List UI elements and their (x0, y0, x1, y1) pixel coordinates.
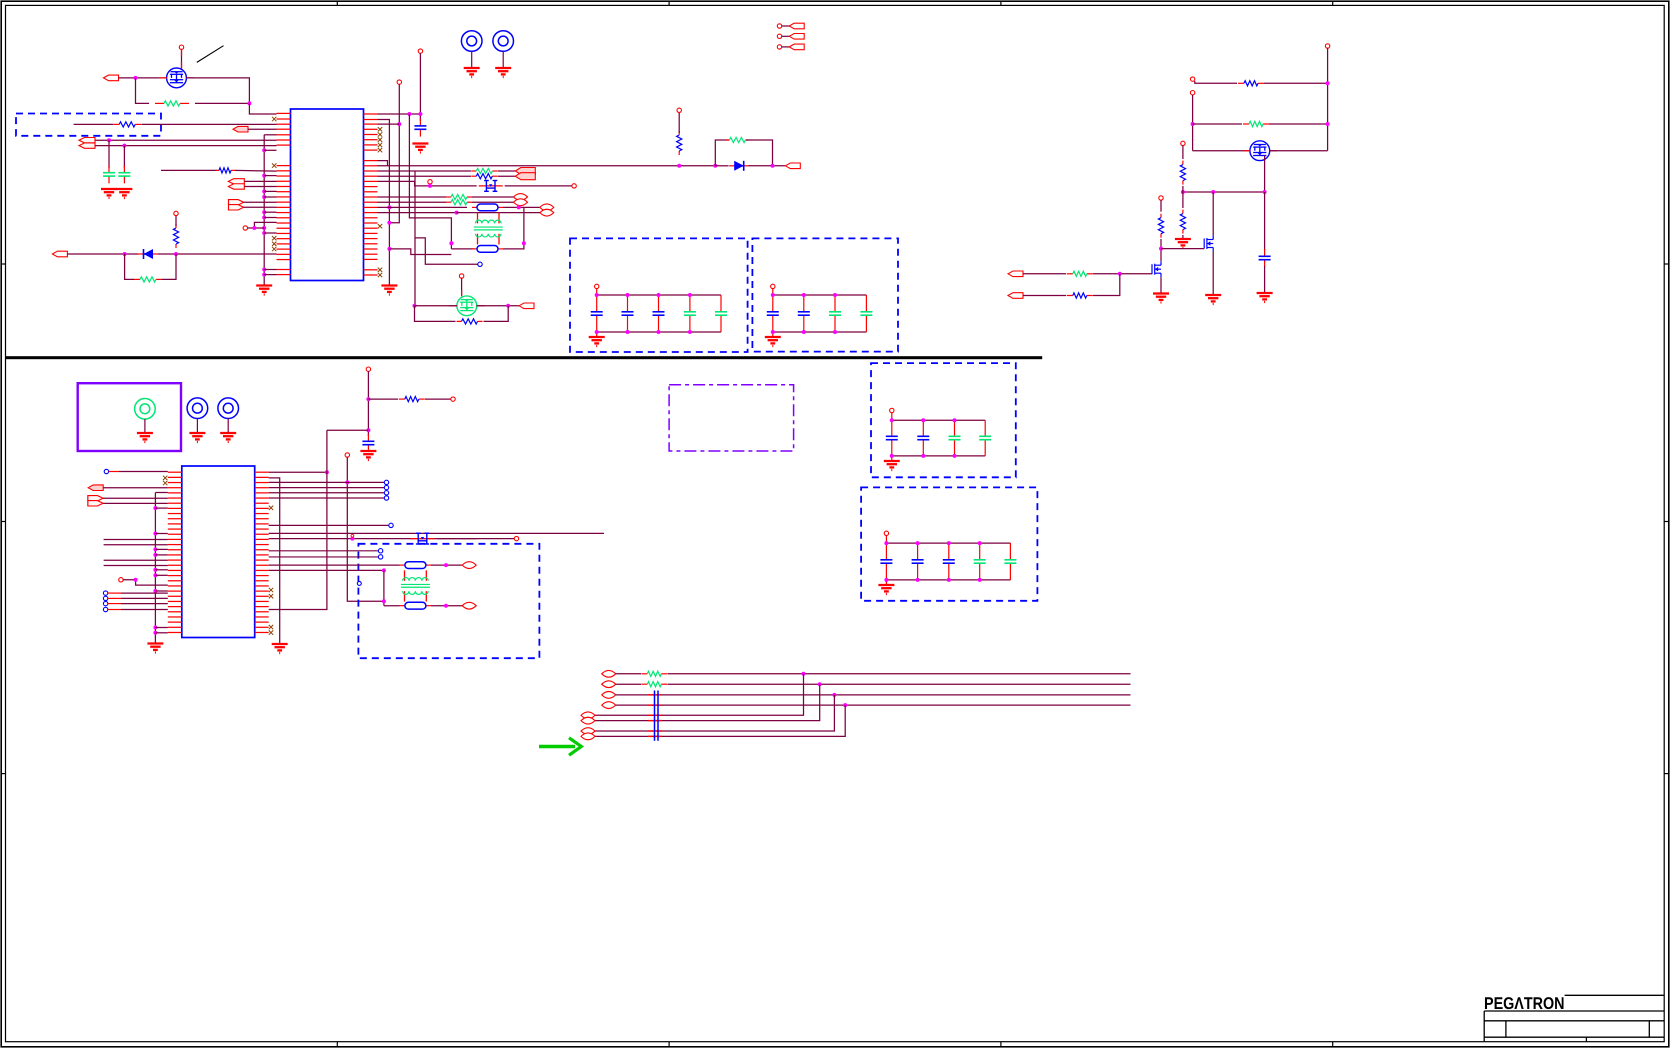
connector tag U2 (88, 485, 103, 491)
connector tag pin4 (233, 126, 248, 132)
wire loop left T1 (451, 248, 474, 250)
green arrow (539, 738, 581, 755)
wire J3b (245, 186, 277, 188)
wire TR row1 right (1264, 82, 1328, 84)
mounting hole green circle (135, 399, 156, 443)
junction row212 (455, 211, 459, 215)
annotation line (197, 46, 224, 63)
no-connect marks U2 right (269, 506, 273, 635)
junction bank3 bottom (953, 454, 957, 458)
wire Q3 drain down (1264, 156, 1266, 192)
wire tag to U2 (103, 487, 168, 489)
resistor R3 (215, 168, 235, 173)
diode D2 (729, 161, 749, 171)
wire bus B1 (378, 120, 390, 286)
power circle TR1 (1325, 44, 1329, 48)
junction Q3 gate node (1159, 247, 1163, 251)
wire vertical 384 (383, 570, 385, 605)
decoupling group box 4 (861, 487, 1037, 600)
off-page connector circle 3 (777, 45, 781, 49)
junction bank4 bottom (978, 578, 982, 582)
wire bus to pin (264, 274, 276, 276)
mounting hole box (purple) (78, 383, 181, 451)
wire bus B4 (414, 171, 416, 306)
ground U2 right (272, 644, 288, 653)
cap bank4 top rail (886, 542, 1010, 544)
transistor Q2 (green mosfet) (457, 296, 477, 316)
connector J2 double arrow (79, 138, 95, 149)
no-connect marks U1 left (272, 117, 276, 251)
wire TR right vertical (1327, 48, 1329, 151)
junction bank3 top (953, 418, 957, 422)
wire bus2 b (668, 683, 1131, 685)
junction at Q1 source (134, 76, 138, 80)
junction bank1 top (626, 293, 630, 297)
junction left bus (262, 210, 266, 214)
node circle pin 228 (243, 226, 247, 230)
junction bank4 bottom (916, 578, 920, 582)
node circle R30 (451, 397, 455, 401)
resistor R22 (1180, 161, 1185, 185)
junction left bus (262, 216, 266, 220)
section divider line (6, 356, 1043, 359)
junction B1 row207 (387, 205, 391, 209)
junction FB1 right (517, 205, 521, 209)
resistor R4 bypass (134, 277, 162, 282)
junction crystal row (350, 537, 354, 541)
wire bus to pin (264, 149, 276, 151)
junction U2 left bus (153, 568, 157, 572)
cap bank4 bottom rail (886, 579, 1010, 581)
wire buslow3 (595, 695, 834, 731)
resistor R7 (725, 137, 749, 142)
Q2 terminal stubs (449, 290, 485, 306)
wire R23 top (1182, 192, 1184, 208)
capacitor bank4 C4 (974, 543, 986, 580)
Q3 terminal stubs (1243, 150, 1277, 152)
junction bank1 top (595, 293, 599, 297)
ground U2 left (147, 644, 163, 653)
wire bus to pin (264, 175, 276, 177)
wire Q5 source (1160, 277, 1162, 293)
crystal Y2 (411, 533, 435, 544)
junction U2 r1 (325, 470, 329, 474)
wire row212 right (457, 212, 541, 214)
function block box (dashed) (16, 114, 161, 136)
transformer T2 choke (401, 570, 430, 601)
resistor R2 (113, 122, 141, 127)
power circle TR2 (1190, 77, 1194, 81)
ground bank2 (765, 337, 781, 346)
capacitor bank4 C2 (912, 543, 924, 580)
wire Q2 right (477, 305, 520, 307)
wire bus4 (616, 704, 1131, 706)
wire row A FB3 (269, 564, 400, 566)
connector oval FB4 (462, 602, 476, 609)
wire bus2 a (616, 683, 641, 685)
wire J10a (103, 497, 168, 499)
diode D1 (138, 249, 158, 259)
wire U2 r1 (269, 471, 327, 473)
junction left bus (262, 174, 266, 178)
no-connect marks U2 left (163, 476, 167, 486)
wire bus stub (155, 554, 167, 556)
junction B5 (418, 112, 422, 116)
wire tag to D1 (67, 253, 138, 255)
wire B3 vertical (409, 114, 451, 249)
junction bank1 bottom (595, 330, 599, 334)
connector double oval busA (581, 712, 595, 724)
junction bank4 bottom (947, 578, 951, 582)
capacitor bank3 C1 (886, 420, 898, 456)
junction bus3 (832, 693, 836, 697)
cap bank2 power circle (771, 284, 775, 288)
wire Q2 drain up (461, 278, 463, 296)
junction left bus (262, 268, 266, 272)
ferrite bead FB2 (472, 246, 503, 253)
wire bus top bend (155, 492, 167, 494)
wire bus stub (155, 632, 167, 634)
ground bank1 (589, 337, 605, 346)
wire bus stub (155, 627, 167, 629)
junction B1-B2 (387, 221, 391, 225)
connector J3 double arrow (228, 179, 244, 190)
LAN magnetics box (dashed) (358, 544, 539, 658)
capacitor bank2 C3 (829, 295, 841, 332)
transistor Q1 (p-ch mosfet) (167, 68, 187, 88)
ground C2 (116, 189, 132, 198)
wire bus stub (155, 574, 167, 576)
connector input D1 (52, 251, 67, 257)
PEGATRON logo text (1484, 994, 1565, 1013)
Q1 terminal stubs (159, 49, 194, 78)
crystal Y1 (479, 181, 503, 192)
no-connect marks U1 right (378, 127, 382, 277)
wire R7 to corner (746, 140, 773, 166)
wire TR row4 (1183, 191, 1265, 193)
junction bus4 (843, 703, 847, 707)
node circle Y2 (514, 536, 518, 540)
wire U2 crystal row (269, 538, 477, 540)
wire R4 up (162, 254, 176, 279)
wire TR row1 (1195, 81, 1237, 83)
wire Q1 drain to IC (186, 78, 249, 104)
junction mid (134, 578, 138, 582)
connector J10 double arrow (88, 495, 103, 506)
capacitor bank3 C2 (917, 420, 929, 456)
power circle R22 (1181, 141, 1185, 145)
wire row 160 jog (378, 161, 388, 166)
wire Q1 bypass loop (136, 78, 150, 104)
wire Q1 drain up (181, 49, 183, 68)
wire J4a (244, 201, 277, 203)
cap bank4 stub (885, 536, 887, 586)
IC U1 left pins (277, 113, 291, 274)
off-page connector circle 1 (777, 24, 781, 28)
wire U2 row 525 (269, 524, 389, 526)
decoupling group box 3 (871, 363, 1016, 477)
wire long net (104, 565, 168, 567)
wire buslow4 (595, 705, 845, 736)
power circle 347 (345, 453, 349, 457)
connector J6 double oval (514, 194, 528, 206)
IC U2 (182, 466, 255, 638)
transistor Q5 (1152, 261, 1161, 277)
cap bank1 top rail (597, 294, 721, 296)
cap bank3 power circle (890, 408, 894, 412)
wire vertical 347 (347, 457, 384, 601)
ferrite bead FB3 (400, 562, 431, 569)
junction U2 left bus (153, 589, 157, 593)
connector J5 double arrow (515, 168, 535, 180)
node circle right of U1 (478, 262, 482, 266)
wire R24 top (1160, 200, 1162, 212)
junction bank4 top (916, 541, 920, 545)
resistor bus R2 (641, 682, 667, 687)
junction bank1 bottom (626, 330, 630, 334)
junction bank4 bottom (884, 578, 888, 582)
wire row B FB4 (384, 605, 400, 607)
cap bank4 power circle (884, 531, 888, 535)
junction bank1 bottom (657, 330, 661, 334)
wire bus to pin (264, 232, 276, 234)
junction bank2 top (833, 293, 837, 297)
capacitor C2 (118, 165, 130, 183)
junction bank4 top (978, 541, 982, 545)
connector output D2 (785, 163, 800, 169)
resistor R30 (399, 397, 425, 402)
junction bank3 bottom (921, 454, 925, 458)
junction U2 left bus (153, 573, 157, 577)
junction bank2 bottom (802, 330, 806, 334)
junction bank2 bottom (833, 330, 837, 334)
junction Q2 left (413, 304, 417, 308)
wire Y2 right (437, 538, 515, 540)
wire pin row3 to B2 (378, 123, 400, 125)
wire row 212.6 (378, 212, 457, 214)
capacitor C3 (414, 119, 426, 137)
wire J2a (95, 139, 277, 141)
test point TP2 (493, 31, 514, 77)
capacitor bank1 C2 (622, 295, 634, 332)
wire R26 right (1093, 274, 1120, 296)
test point TP3 (187, 398, 208, 442)
junction TR row1 (1326, 81, 1330, 85)
junction U2 left bus (153, 553, 157, 557)
junction left bus (262, 189, 266, 193)
junction B2 row3 (397, 122, 401, 126)
power circle R24 (1159, 196, 1163, 200)
wire Q2 left (415, 305, 458, 307)
cap bank1 power circle (595, 284, 599, 288)
IC U2 right pins (255, 472, 269, 632)
junction D1 right (174, 252, 178, 256)
wire row430 (327, 429, 369, 431)
junction at 254 (252, 226, 256, 230)
connector input R26 (1008, 293, 1023, 299)
wire circle to pin (248, 227, 265, 229)
wire Q4 source (1212, 252, 1214, 295)
wire bus B3 (378, 113, 421, 115)
wire R6 top (678, 113, 680, 134)
junction TR row2 right (1326, 122, 1330, 126)
junction row 430 (366, 428, 370, 432)
wire R8 to tag (498, 170, 516, 172)
junction R6 tap (677, 164, 681, 168)
ground C1 (101, 189, 117, 198)
wire R30 row (368, 398, 398, 400)
power circle top U2 (366, 367, 370, 371)
wire row R10 (378, 196, 447, 198)
ground U1 left bus (256, 286, 272, 295)
wire R26 left (1023, 295, 1066, 297)
wire R5 top (175, 216, 177, 226)
cap bank3 stub (891, 413, 893, 461)
connector double oval busB (581, 728, 595, 740)
cap bank3 top rail (892, 419, 985, 421)
junction left bus (262, 231, 266, 235)
wire FB1 right (503, 206, 540, 208)
wire bus1 a (616, 673, 641, 675)
connector input to Q1 (104, 75, 119, 81)
connector oval FB3 (462, 562, 476, 569)
junction U2 left bus (153, 532, 157, 536)
reserved area box (dash-dot) (669, 385, 794, 451)
node circle mid left (119, 578, 123, 582)
wire long net (104, 539, 168, 541)
wire TR left vertical (1192, 95, 1194, 151)
power circle TR3 (1190, 91, 1194, 95)
junction bank1 top (657, 293, 661, 297)
junction 601 (382, 599, 386, 603)
connector output Q2 (519, 303, 534, 309)
junction bank4 top (884, 541, 888, 545)
power node circle R6 (677, 108, 681, 112)
power node circle R5 (174, 211, 178, 215)
capacitor bank1 C1 (591, 295, 603, 332)
resistor R6 (677, 131, 682, 155)
off-page connector tag 2 (789, 34, 804, 40)
wire gate row Q4 (1161, 248, 1204, 250)
junction U2 left bus (153, 626, 157, 630)
junction bank3 top (890, 418, 894, 422)
wire TR row3 left (1193, 150, 1250, 152)
off-page connector wire 2 (782, 35, 790, 37)
wire long net (104, 559, 168, 561)
resistor R24 (1158, 214, 1163, 238)
wire R22 top (1182, 146, 1184, 159)
connector J4 double arrow (229, 199, 244, 210)
junction left bus (262, 195, 266, 199)
wire R3 to pin (235, 169, 277, 172)
capacitor C1 (103, 165, 115, 183)
wire pin5 to bus (264, 134, 276, 136)
junction B3 top (407, 112, 411, 116)
wire R2 to IC pin (142, 123, 277, 125)
stub circle pin1 (109, 471, 119, 473)
wire FB2 right (503, 207, 524, 249)
junction U2 left bus (153, 506, 157, 510)
wire R25 left (1023, 273, 1066, 275)
ground C12 (360, 451, 376, 460)
wire R25 right (1093, 273, 1152, 275)
capacitor bank2 C2 (798, 295, 810, 332)
junction J2a cap tap (107, 138, 111, 142)
pin number 3 mark (351, 534, 354, 537)
junction bank3 top (921, 418, 925, 422)
junction bank3 bottom (890, 454, 894, 458)
wire FB3 right (431, 564, 462, 566)
wire bus to pin (264, 217, 276, 219)
wire J4b (244, 206, 277, 208)
junction 570 (382, 568, 386, 572)
wire buslow1 (595, 674, 804, 716)
decoupling group box 2 (752, 238, 898, 351)
wire into R2 (74, 123, 113, 125)
resistor R25 (1067, 271, 1093, 276)
junction FB2 right (522, 241, 526, 245)
wire R23 bottom (1182, 235, 1184, 239)
test point TP4 (218, 398, 239, 442)
wire Q2 bypass (415, 306, 456, 322)
wire U2 r2 (269, 478, 280, 644)
junction U2 left bus (153, 631, 157, 635)
svg-text:PEGΛTRON: PEGΛTRON (1484, 994, 1565, 1013)
capacitor bank4 C3 (943, 543, 955, 580)
junction FB4 (444, 604, 448, 608)
IC U1 (291, 109, 364, 281)
junction D2 right (771, 164, 775, 168)
wire R10 right (472, 196, 514, 198)
ferrite bead FB4 (400, 602, 431, 609)
wire cap C2 up (123, 146, 125, 168)
wire R1 to junction (195, 102, 249, 104)
wire tag to pin4 (248, 128, 277, 130)
resistor R1 across Q1 (155, 101, 189, 106)
node circle Y1 (428, 180, 432, 184)
cap bank1 bottom rail (597, 331, 721, 333)
junction D2 left (713, 164, 717, 168)
capacitor bank3 C4 (979, 420, 991, 456)
wire bus stub (155, 569, 167, 571)
capacitor bank4 C1 (880, 543, 892, 580)
wire D2 right (749, 165, 786, 167)
junction Q2 right (506, 304, 510, 308)
node circle b (357, 581, 361, 585)
wire bus to pin (264, 196, 276, 198)
wire D2 loop (715, 140, 729, 166)
capacitor bank2 C1 (767, 295, 779, 332)
node circle U2 pin1 (104, 469, 108, 473)
capacitor C12 (362, 434, 374, 452)
junction bank1 top (688, 293, 692, 297)
resistor R12 (457, 319, 483, 324)
junction TR row2 left (1191, 122, 1195, 126)
connector oval bus2 (602, 681, 616, 688)
wire R9 to tag (498, 175, 516, 177)
wires to circles in box (269, 549, 383, 560)
wire B5 vertical (419, 53, 421, 121)
wire D2 left stub (715, 165, 728, 167)
wire R30 right (425, 398, 451, 400)
wire vertical 326 (269, 430, 327, 609)
off-page connector circle 2 (777, 34, 781, 38)
transistor Q3 (1250, 141, 1270, 161)
off-page connector wire 3 (782, 46, 790, 48)
junction U2 left bus (153, 547, 157, 551)
connector oval bus3 (602, 692, 616, 699)
wire TR row3 right (1270, 150, 1328, 152)
